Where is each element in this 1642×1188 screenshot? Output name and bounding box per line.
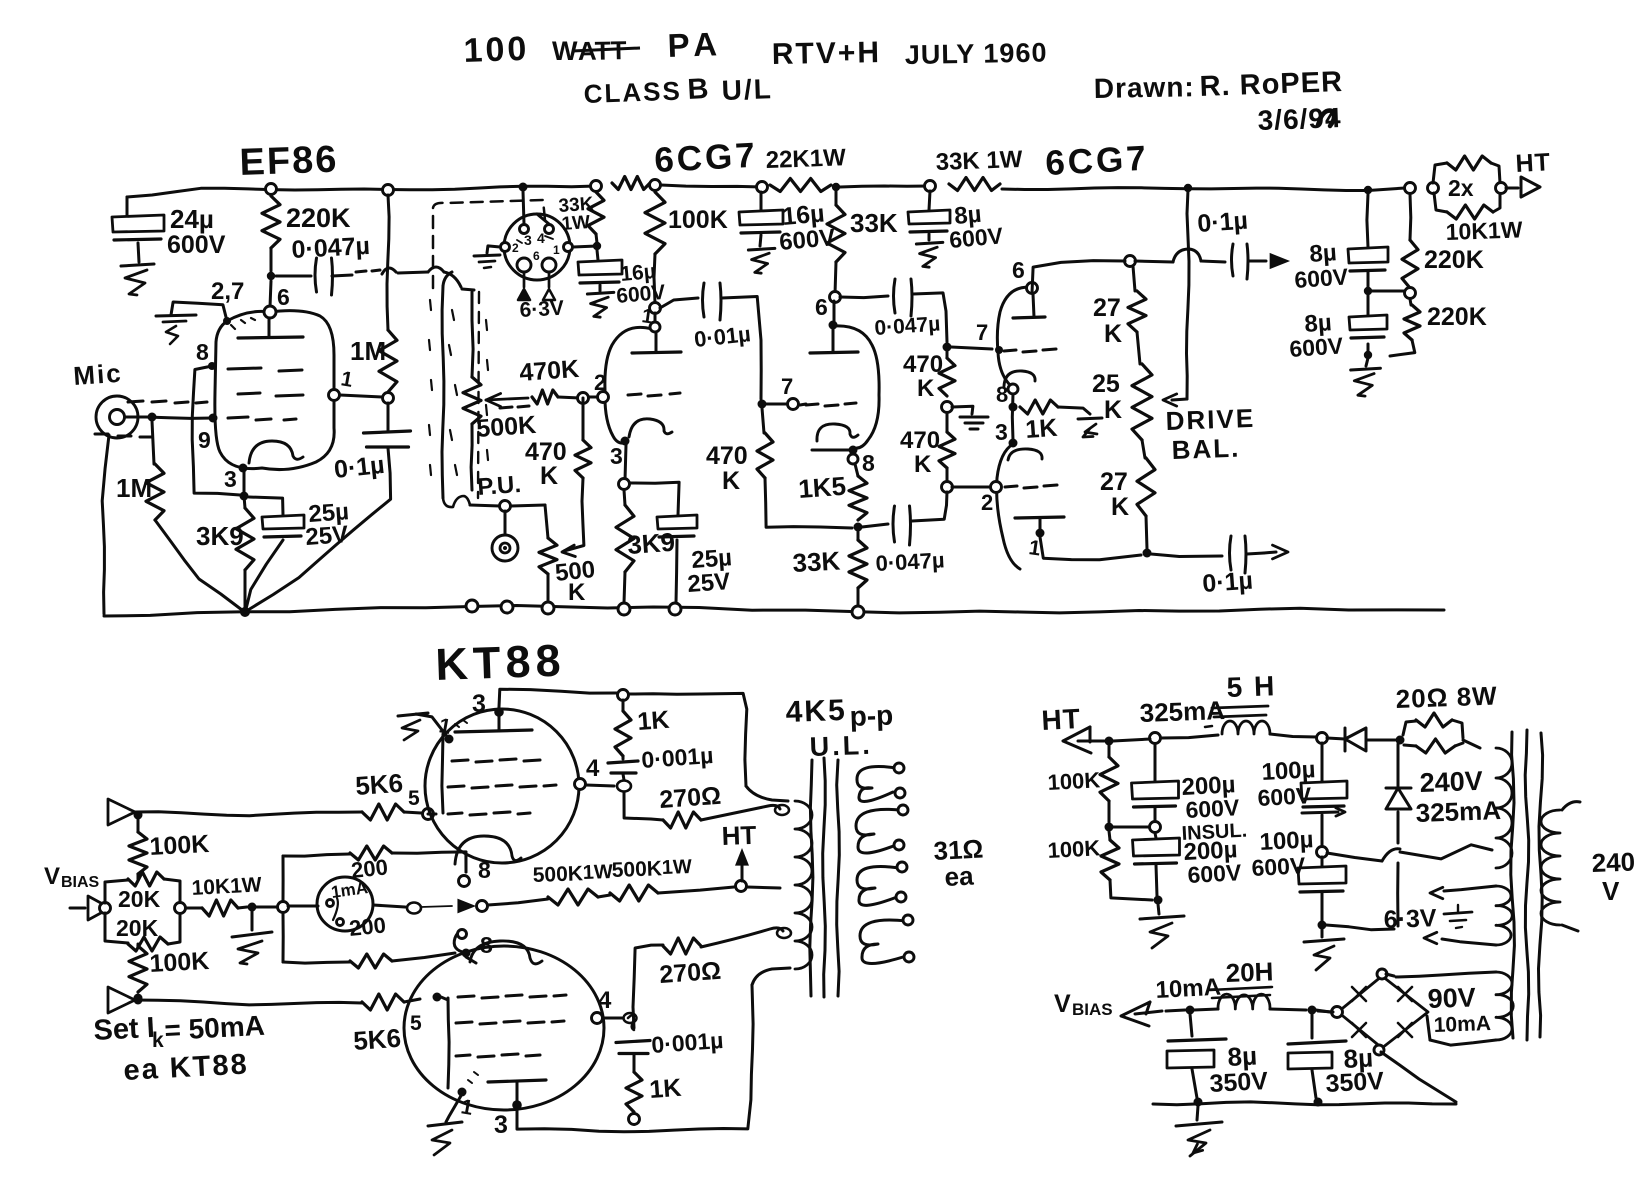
wire socket top [519,183,528,192]
meter out ellipse [407,903,421,914]
node 8u2 bottom [1364,351,1372,359]
svg-text:JULY 1960: JULY 1960 [905,38,1048,70]
node VBIAS in [100,903,111,914]
wire to bridge [1316,1010,1330,1012]
svg-text:25V: 25V [687,568,731,598]
svg-text:6CG7: 6CG7 [653,136,758,180]
node cathode chain [854,523,863,532]
svg-text:5 H: 5 H [1226,670,1277,703]
ground 8u [1366,358,1368,366]
svg-text:8: 8 [196,339,209,365]
potentiometer VR2 500K PU [545,505,548,538]
svg-text:2x: 2x [1448,175,1474,201]
svg-text:4: 4 [586,755,600,782]
svg-text:BIAS: BIAS [61,874,100,891]
VR2 wiper arrow [562,545,575,556]
svg-text:p-p: p-p [849,699,894,732]
node bus 8u1 [1194,1098,1203,1107]
svg-text:5: 5 [410,1012,422,1035]
svg-text:BIAS: BIAS [1072,1000,1113,1019]
input arrow upper [108,799,135,825]
svg-text:1M: 1M [350,336,386,366]
node mic junction [148,413,157,422]
wire PU line [470,505,500,506]
svg-text:ea: ea [944,860,975,892]
node chain bottom [1143,549,1152,558]
KT88 upper pin5 [423,809,434,820]
KT88#2 dashes r2 [456,1021,564,1024]
svg-text:7: 7 [976,320,988,345]
terminal 5 [669,603,681,615]
svg-text:600V: 600V [948,222,1004,253]
capacitor C15 8u 600V lower [1367,295,1370,315]
resistor R17 470K upper [946,351,949,358]
T4 plate bar [1013,317,1045,318]
node 100u top [1317,733,1328,744]
node pin4 curl [628,1015,634,1030]
tube T3 envelope [833,326,879,448]
tube KT88 #1 envelope [425,709,579,863]
wire plate feed to pin6 [270,281,271,307]
wire HT rail mid2 [840,186,930,187]
VR1 wiper arrow [486,394,501,407]
node mixer junction [578,393,589,404]
6.3V leads [1444,886,1496,891]
wire choke to node [1270,734,1317,737]
node common cathode ground [240,607,250,617]
UL tap lower [777,928,791,938]
KT88#2 cathode stub [466,957,476,963]
node vbias 8u1 [1186,1006,1195,1015]
shield box dashed top [433,200,546,288]
capacitor C6 16u 600V [757,182,768,193]
resistor R5 470K mixer [532,390,558,404]
svg-text:100K: 100K [1047,767,1101,795]
resistor R33 1K lower [626,1072,642,1112]
wire 100K-200u link [1113,826,1149,829]
svg-text:10mA: 10mA [1155,974,1222,1004]
tube T2 6CG7a envelope [605,327,652,443]
node 1K lower bottom [629,1114,640,1125]
svg-text:2: 2 [512,241,519,255]
capacitor C16 0.001u [622,756,625,759]
wire 100u2 to diode2 [1326,925,1394,930]
node OPT CT [736,881,747,892]
wire 100K to plate [654,313,657,322]
svg-text:PA: PA [667,25,724,64]
svg-text:90V: 90V [1427,982,1476,1014]
wire drive bal vertical [1187,190,1190,399]
PU jack [492,535,518,561]
svg-text:3: 3 [610,443,623,469]
resistor R34 100K psu1 [1108,745,1111,757]
svg-text:BAL.: BAL. [1171,433,1241,465]
node T3 grid junction [758,400,767,409]
node PU junction [500,501,511,512]
wire HT rail psu [1113,739,1150,741]
capacitor C4 25u 25V [249,497,283,515]
svg-text:Set I: Set I [93,1012,156,1047]
EF86 pin9 dot [209,414,218,423]
T5 plate pin1 [1036,529,1045,538]
resistor R1 220K [266,184,277,195]
terminal 3 [542,602,554,614]
capacitor C2 0.047u coupling [276,275,311,278]
svg-text:DRIVE: DRIVE [1165,403,1255,436]
wire input upper [135,812,362,816]
svg-text:600V: 600V [1257,782,1313,811]
node T2 cathode junction [619,479,630,490]
node rail 22K [832,183,840,191]
OPT secondary w4 [860,920,906,964]
shield tall dashed right [478,292,479,498]
svg-text:470: 470 [706,442,748,470]
wire T4 plate to 27K [1032,261,1125,293]
node 1M bottom [383,393,394,404]
node psu gnd2 [1318,921,1327,930]
wire KT88#1 plate top [499,689,617,707]
mic cable shield dashes [95,401,207,437]
wire to pin7 [766,403,786,406]
grid dash to tube [800,404,806,405]
wire meter out [373,905,405,907]
resistor R9 100K [650,180,661,191]
svg-text:3/6/94: 3/6/94 [1257,102,1342,136]
svg-text:33K: 33K [792,546,841,578]
svg-text:0·047µ: 0·047µ [875,547,945,576]
resistor R16 33K bottom [849,540,867,588]
T3 grid dashes [806,403,856,406]
wire bridge top to 90V [1386,974,1394,976]
KT88#1 cathode arc [455,836,521,864]
svg-text:220K: 220K [286,203,351,233]
capacitor C5 16u 600V [597,250,598,260]
EF86 cathode arc [249,441,303,463]
resistor R27 500K1W [548,889,598,905]
capacitor C13 0.1u lower out [1230,536,1232,570]
T5 cathode pin3 [1009,439,1018,448]
EF86 pin8 wire [208,362,216,370]
wire loop left [282,856,285,901]
svg-text:V: V [1602,876,1620,906]
node 200u top [1150,733,1161,744]
wire plate to OPT [629,693,747,786]
KT88#1 dashes r2 [448,785,556,788]
resistor chain 25K [1132,364,1152,440]
svg-text:6·3V: 6·3V [1383,904,1437,934]
wire mic to grid pin9 [125,417,213,418]
svg-text:470: 470 [903,351,943,378]
HT arrow out [1506,187,1518,190]
bridge corner top [1377,969,1387,979]
wire HT rail [127,186,596,197]
capacitor C1 24u 600V [126,197,129,215]
svg-text:25: 25 [1092,370,1120,398]
ground 10K [251,911,254,930]
svg-text:24µ: 24µ [170,204,214,234]
wire socket right [573,246,597,247]
terminal 4 [618,603,630,615]
EF86 plate bar [238,337,303,338]
svg-text:0·001µ: 0·001µ [651,1027,725,1058]
wire HT rail right [1002,188,1405,191]
T4 plate node [1027,283,1038,294]
potentiometer VR1 500K [472,292,473,377]
capacitor C17 0.001u lower [616,1041,650,1043]
resistor R25 100K lower [137,944,140,946]
node cathodes common [1009,403,1018,412]
EF86 pin6 circle [264,306,276,318]
capacitor C12 0.1u upper out [1232,244,1234,276]
resistor R18 470K lower [946,413,949,432]
KT88#1 cathode stub [465,852,468,872]
node psu gnd1 [1154,896,1163,905]
diode D2 [1397,744,1400,786]
svg-text:4: 4 [537,230,545,246]
resistor chain 27K lower [1137,458,1155,516]
svg-text:K: K [1104,396,1122,424]
KT88#2 dashes r3 [456,1054,540,1057]
svg-text:0·1µ: 0·1µ [1196,207,1248,238]
node EF86 pin1 [329,390,340,401]
capacitor C3 0.1u [387,403,390,430]
wire 270 feed [624,792,663,820]
svg-text:600V: 600V [1251,852,1307,881]
PT 6.3V winding [1496,886,1512,945]
wire bridge left [1318,1011,1333,1012]
KT88#2 grid bar [448,998,449,1088]
wire input lower [135,1000,362,1005]
svg-text:1K: 1K [1024,414,1058,444]
svg-text:HT: HT [1515,148,1552,178]
svg-text:500K: 500K [611,857,662,882]
OPT core [810,760,813,996]
svg-text:5K6: 5K6 [352,1023,402,1056]
tube KT88 #2 envelope [404,946,604,1110]
wire T5 plate out [1040,537,1141,560]
capacitor C22 8u 350V [1190,1014,1192,1036]
ground vbias [1197,1106,1198,1120]
OPT primary winding [795,801,812,969]
wire output lower [1151,554,1222,557]
EF86 internal dashes row3 [228,417,296,420]
KT88#1 grid bar [442,734,443,813]
svg-text:350V: 350V [1209,1067,1269,1098]
resistor R13 3K9 second [624,490,625,505]
wire 100K to box [137,874,140,879]
drive bal wiper [1172,399,1187,400]
KT88#2 pin4 [592,1013,603,1024]
resistor R8 33K1W rail [612,177,650,190]
wire 8u-220K link [1372,290,1404,293]
capacitor C10 0.047u coupling1 [840,296,888,298]
svg-text:K: K [722,467,740,495]
svg-text:0·047µ: 0·047µ [874,312,941,340]
resistor R22 2x 10K1W [1428,183,1439,194]
svg-text:10mA: 10mA [1433,1012,1491,1037]
resistor R35 100K psu2 [1109,831,1110,840]
wire to pin2 T5 [952,486,990,489]
node 470K bottom [942,482,953,493]
wire to 500K [488,899,548,905]
svg-text:27: 27 [1100,468,1128,496]
capacitor C23 8u 350V second [1311,1014,1314,1038]
capacitor C20 100u 600V [1321,743,1324,781]
capacitor C19 200u 600V lower [1155,833,1156,838]
T3 pin7 circle [788,399,799,410]
svg-text:200: 200 [348,912,387,941]
resistor R6 470K PU [575,440,591,478]
svg-text:20K: 20K [118,886,161,912]
svg-text:100: 100 [463,30,530,70]
terminal 6 [852,606,864,618]
bridge rectifier diamond [1338,976,1428,1048]
node input upper [134,811,143,820]
svg-text:V: V [44,863,60,890]
svg-text:100K: 100K [149,830,210,861]
wire grid T4 [951,347,992,349]
PT HV winding 240V [1496,748,1512,868]
wire cathode to junction [239,464,248,473]
svg-text:6CG7: 6CG7 [1044,139,1149,183]
node 10K out [248,903,257,912]
T3 plate stem [829,321,838,330]
T2 plate bar [632,352,681,353]
wire 2,7 to ground [223,317,231,325]
resistor R21 220K lower [1410,299,1411,305]
wire pin1 to 1M node [340,395,382,397]
svg-text:Mic: Mic [72,358,123,391]
svg-text:22K1W: 22K1W [765,144,846,174]
wire to gnd bars [952,406,973,414]
capacitor C21 100u 600V lower [1321,857,1324,866]
svg-text:1W: 1W [582,861,613,884]
node diode out [1396,736,1405,745]
T3 plate bar [810,352,858,353]
node 8u mid [1364,287,1372,295]
svg-text:= 50mA: = 50mA [164,1010,266,1046]
node input lower [134,996,143,1005]
svg-text:350V: 350V [1325,1067,1385,1098]
diode D1 [1327,738,1345,739]
node PSU HT [1105,737,1114,746]
wire vbias gnd bus [1153,1102,1456,1105]
wire to HV bottom [1327,853,1382,861]
capacitor C18 200u 600V [1154,744,1157,781]
svg-text:33K: 33K [850,208,898,238]
svg-text:6: 6 [533,249,540,263]
wire HT rail mid [661,185,763,187]
node 470K mid [942,402,953,413]
svg-text:470K: 470K [518,355,580,387]
svg-text:600V: 600V [1289,332,1345,362]
svg-text:220K: 220K [1427,303,1487,331]
bridge corner left [1332,1007,1343,1018]
svg-text:Drawn:: Drawn: [1094,71,1195,104]
OPT secondary w2 [856,809,900,853]
node vbias 8u2 [1308,1006,1317,1015]
svg-text:600V: 600V [167,231,226,259]
KT88#1 pin3 [494,707,504,717]
wire mic body down [102,435,109,614]
resistor R10 22K1W rail [770,179,831,192]
svg-text:270Ω: 270Ω [658,782,722,814]
node bus 8u2 [1314,1098,1323,1107]
wire socket left to ground [487,246,500,253]
svg-text:EF86: EF86 [239,139,339,184]
svg-text:K: K [568,579,586,606]
svg-text:3: 3 [472,690,486,718]
EF86 tube T1 envelope [215,311,334,470]
svg-text:100µ: 100µ [1259,826,1314,856]
svg-text:325mA: 325mA [1415,795,1501,828]
svg-text:325mA: 325mA [1139,695,1225,728]
svg-text:240: 240 [1591,847,1635,878]
input arrow lower [108,987,135,1013]
svg-text:K: K [1111,493,1129,521]
svg-text:600V: 600V [1187,859,1243,888]
VBIAS arrow [88,896,110,920]
200 ohm lower [283,962,350,963]
resistor R30 270ohm [663,812,701,828]
resistor R12 33K1W rail2 [949,178,1000,191]
ground 470K mid [960,416,988,419]
OPT secondary w3 [857,867,899,906]
KT88#2 plate bar [488,1080,546,1082]
shield solid left edge [442,286,444,498]
svg-text:8: 8 [862,450,875,476]
resistor R11 33K [835,191,838,205]
PT primary 240V [1562,802,1580,810]
KT88#1 dashes r1 [452,759,540,762]
svg-text:CLASS: CLASS [583,76,682,109]
T2 grid dashes [628,393,680,396]
svg-text:6: 6 [1012,257,1025,283]
svg-text:HT: HT [1041,703,1082,736]
svg-text:3: 3 [524,232,532,248]
svg-text:6: 6 [815,294,828,320]
KT88#1 pin4 [575,779,586,790]
resistor R24 100K upper [137,819,140,832]
svg-text:1M: 1M [116,473,152,503]
svg-text:3: 3 [995,419,1008,445]
svg-text:240V: 240V [1419,766,1483,798]
svg-text:0·1µ: 0·1µ [1201,567,1253,598]
feed arrow [458,900,474,913]
resistor R31 5K6 lower [362,994,404,1010]
wire 270 lower feed [701,928,783,947]
svg-text:20K: 20K [116,915,159,941]
KT88 lower pin5 [433,993,442,1002]
wire 270-2 feed [633,945,663,1028]
KT88 upper pin8 [459,876,470,887]
OPT secondary w1 [857,767,896,802]
wire thin to arrow [421,906,452,907]
KT88#2 pin3 [512,1100,522,1110]
bridge diode marks [1352,987,1366,1001]
svg-text:3K9: 3K9 [626,527,676,560]
T5 grid entry [991,482,1002,493]
svg-text:20H: 20H [1225,956,1274,988]
svg-text:6·3V: 6·3V [519,297,565,322]
shield bottom [443,496,470,507]
EF86 internal dashes row2 [238,393,303,396]
VBIAS psu arrow [1121,1002,1150,1026]
200 ohm upper [283,854,350,856]
node 100u mid [1317,847,1328,858]
pot 20K-20K box [105,880,128,903]
resistor R23 5K6 upper [362,804,404,820]
